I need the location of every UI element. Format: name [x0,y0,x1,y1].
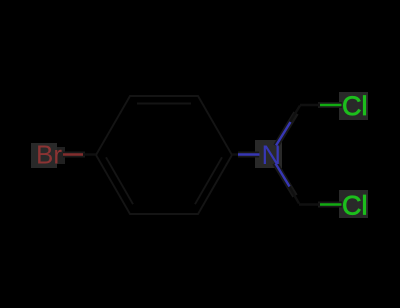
bond N-CH2 lower carbon half [289,186,299,204]
halo bond N-CH2 upper [276,113,296,146]
halo bond N-CH2 lower [275,163,295,196]
double bond lower-left [106,157,133,204]
svg-text:Cl: Cl [342,191,368,221]
double bond lower-right [195,157,222,204]
halo bond CH2-Cl upper [318,102,342,108]
svg-text:N: N [262,140,282,170]
bond CH2-Cl lower carbon half [299,203,320,205]
benzene ring [96,96,232,214]
bond N-CH2 upper carbon half [290,106,300,123]
bond Br half (red) [63,153,83,155]
svg-text:Br: Br [36,140,62,170]
halo bond Br [63,152,85,158]
bond N half horizontal (blue) [238,153,260,155]
halo box N [255,140,282,168]
halo bond CH2-Cl lower [318,202,342,208]
svg-text:Cl: Cl [342,91,368,121]
bond Cl half upper (green) [320,104,342,106]
halo bond ring-N [238,152,259,158]
bond CH2-Cl upper carbon half [300,104,320,106]
bond N half upper diagonal (blue) [276,122,291,146]
bond C-Br carbon half [83,153,96,155]
halo box Cl top [339,92,368,120]
double bond top [137,103,191,105]
bond C-N carbon half [232,153,239,155]
bond N half lower diagonal (blue) [276,164,290,187]
halo box Cl bottom [339,190,368,218]
bond Cl half lower (green) [320,203,342,205]
halo box Br [31,143,57,168]
